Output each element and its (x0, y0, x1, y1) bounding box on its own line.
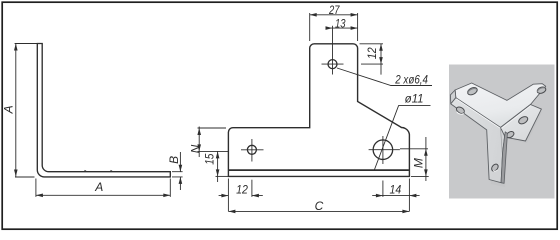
dim 27: dimension line (310, 14, 358, 16)
bend line (229, 169, 409, 171)
dim 12 bottom: extension lines (227, 179, 229, 212)
centerline ext big hole down (382, 181, 384, 197)
centerlines big hole (369, 136, 400, 164)
left flange hole (455, 106, 465, 115)
edge highlight along sloped top (501, 106, 531, 129)
ext right edge down (408, 179, 410, 212)
svg-text:C: C (315, 199, 324, 213)
dim A vertical: dimension line (15, 44, 17, 177)
sloped face under right wing (501, 105, 542, 142)
tick marks on leg (85, 170, 113, 171)
edge highlight along left wing front (456, 99, 500, 128)
svg-text:M: M (412, 158, 426, 168)
hole big (373, 140, 393, 160)
bracket top face (455, 83, 546, 128)
bottom flange hole (490, 163, 499, 172)
bottom flange hole highlight (493, 170, 497, 171)
dim 12 right: dimension line with overshoot (380, 44, 382, 75)
dim 12 right: extension lines (360, 44, 384, 64)
svg-text:ø11: ø11 (405, 91, 424, 105)
svg-text:A: A (2, 105, 16, 114)
plate outline with tab (228, 44, 409, 177)
arrowheads left view (14, 44, 18, 51)
hole small left (247, 145, 256, 154)
dim A bottom: dimension line (36, 194, 170, 196)
interior bend edge of flange (501, 128, 503, 153)
soft shadow under bracket (489, 106, 542, 187)
dim 14 bottom: dimension line (372, 195, 419, 197)
continuous left + bottom flange face (451, 98, 505, 183)
hole small top tab (328, 60, 337, 69)
centerlines top hole (322, 26, 344, 75)
svg-text:13: 13 (335, 17, 346, 31)
dim B: dimension line with outside arrows (179, 152, 181, 190)
svg-text:15: 15 (203, 153, 217, 164)
sloped face hole lower (505, 130, 515, 139)
dim 15: bottom extension (216, 175, 229, 177)
sloped face hole upper (517, 115, 529, 125)
svg-text:12: 12 (236, 182, 248, 196)
svg-text:B: B (167, 156, 181, 164)
leader d11 (375, 106, 431, 170)
L-profile outline (37, 44, 170, 177)
photo background (449, 65, 555, 199)
svg-text:A: A (94, 180, 103, 194)
svg-text:12: 12 (365, 47, 379, 59)
right wing top hole (536, 86, 547, 95)
dim 15: dimension line (217, 151, 219, 182)
left wing top hole (466, 86, 478, 96)
svg-text:27: 27 (328, 3, 340, 17)
left wing tip end face (450, 90, 455, 104)
dim M: dimension line with overshoot (425, 137, 427, 181)
left flange hole highlight (457, 112, 464, 114)
dim N: dimension line (198, 127, 200, 158)
dim B: extension lines (172, 172, 183, 177)
dim 13: dimension line with left tail (326, 27, 358, 29)
right wing hole inner shadow (537, 88, 544, 92)
dim M: extension lines (400, 149, 429, 177)
dim 27: extension lines (310, 13, 358, 41)
svg-text:14: 14 (390, 182, 402, 196)
dim 12 bottom: dimension line outside arrows (219, 195, 263, 197)
svg-text:N: N (189, 144, 203, 153)
centerline ext left hole down (251, 180, 253, 197)
svg-text:2 xø6,4: 2 xø6,4 (394, 73, 428, 87)
dim C: dimension line (228, 210, 409, 212)
arrowheads middle view (310, 13, 317, 17)
dim A vertical: extension lines (15, 44, 38, 178)
centerlines left hole (241, 139, 264, 162)
left wing hole inner shadow (468, 88, 476, 93)
leader 2xd6.4 (337, 68, 432, 86)
bottom flange right edge strip (501, 132, 507, 184)
dim N: extension lines (198, 128, 229, 151)
dim A bottom: extension lines (36, 179, 170, 197)
